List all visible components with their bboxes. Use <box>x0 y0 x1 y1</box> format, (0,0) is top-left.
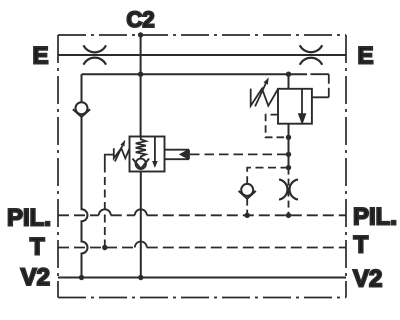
wire spring drain elbow <box>105 155 114 165</box>
overcenter valve U1 poppet seat <box>133 159 150 169</box>
node drain on T <box>102 245 107 250</box>
overcenter valve U1 flow arrow <box>154 137 156 162</box>
wire U2 bottom port <box>288 124 290 168</box>
check valve CV2 circle <box>241 184 253 196</box>
overcenter valve U1 adjust arrow <box>115 146 123 162</box>
svg-text:PIL.: PIL. <box>353 204 397 231</box>
node C2 on top border <box>138 32 143 37</box>
wire pilot dashed y154 <box>190 153 289 155</box>
wire T line dashed with bridges <box>58 242 346 248</box>
node CV1 branch on V2 <box>79 275 84 280</box>
node CV2 on PIL <box>245 213 250 218</box>
overcenter valve U1 adjustable spring <box>114 148 130 158</box>
wire pilot orifice line dashed <box>288 168 290 216</box>
node C2 x gallery <box>138 72 143 77</box>
enclosure left border <box>57 35 59 298</box>
svg-text:C2: C2 <box>126 7 154 32</box>
wire PIL line dashed with bridges <box>58 209 346 215</box>
check valve CV1 circle <box>76 102 88 114</box>
node orifice line on PIL <box>286 213 291 218</box>
wire U1 bottom port to V2 <box>140 172 142 278</box>
svg-text:T: T <box>354 232 369 259</box>
node relief valve top x gallery <box>286 72 291 77</box>
wire C2 drop line <box>140 35 142 137</box>
svg-text:E: E <box>32 43 48 70</box>
wire U2 pilot loop dashed <box>266 115 289 138</box>
node branch junction y167 <box>286 165 291 170</box>
vent arrow into U1 <box>165 150 190 160</box>
relief valve U2 body <box>278 89 312 124</box>
pilot orifice arcs <box>279 179 298 199</box>
wire CV2 to PIL <box>246 199 248 216</box>
svg-text:E: E <box>358 43 374 70</box>
wire U2 top port <box>288 74 290 89</box>
enclosure bottom border <box>58 297 346 299</box>
relief valve U2 adjust arrow <box>255 84 266 107</box>
node pilot y154 junction <box>286 152 291 157</box>
check valve CV2 seat <box>239 191 256 199</box>
svg-text:V2: V2 <box>353 266 382 293</box>
svg-text:PIL.: PIL. <box>7 205 51 232</box>
orifice on E line right <box>300 45 322 64</box>
wire CV1 to V2 line <box>82 117 88 278</box>
enclosure right border <box>345 35 347 298</box>
relief valve U2 flow arrow <box>301 89 303 114</box>
node U1 branch on V2 <box>138 275 143 280</box>
svg-text:V2: V2 <box>21 264 50 291</box>
wire main gallery line y74 <box>82 73 308 75</box>
wire left branch down from gallery <box>81 74 83 102</box>
node U2 pilot loop junction <box>286 135 291 140</box>
overcenter valve U1 poppet ball <box>136 159 146 169</box>
svg-text:T: T <box>30 234 45 261</box>
overcenter valve U1 body <box>130 137 165 172</box>
overcenter valve U1 spring coil <box>136 137 146 159</box>
wire branch dashed to CV2 <box>247 168 288 184</box>
wire E line <box>58 54 346 56</box>
wire spring drain dashed to T <box>104 165 106 248</box>
relief valve U2 adjustable spring <box>251 89 278 106</box>
orifice on E line left <box>84 45 107 64</box>
wire V2 line <box>58 277 346 279</box>
enclosure top border <box>58 34 346 36</box>
check valve CV1 seat <box>73 109 90 117</box>
wire U2 right pilot dashed <box>311 74 329 97</box>
